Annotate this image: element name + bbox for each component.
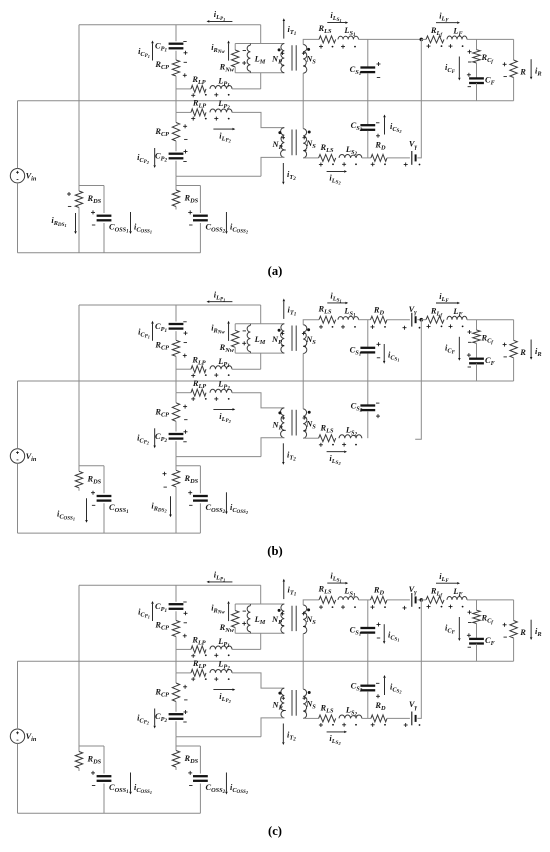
wire CF to mid rail [476, 644, 478, 662]
capacitor CP1 [169, 323, 184, 325]
svg-text:iT1: iT1 [288, 25, 297, 37]
svg-text:iCP2: iCP2 [137, 433, 150, 445]
svg-text:iT2: iT2 [287, 170, 296, 182]
polarity - R [504, 636, 507, 638]
current arrow iLP1 [209, 301, 232, 303]
wire NS2 bottom to branch [303, 717, 318, 719]
polarity - COSS2 [189, 785, 192, 787]
polarity dot NS T2 [308, 131, 311, 134]
polarity - COSS2 [189, 224, 192, 226]
transformer T2 core [291, 690, 293, 716]
wire leg1 vertical [78, 585, 80, 751]
dangling stub from output node [415, 320, 421, 440]
polarity marks RD Vgamma bottom [371, 163, 375, 165]
wire RD to Vgamma top [387, 599, 410, 601]
svg-text:iCP2: iCP2 [137, 153, 150, 165]
wire top rail down to box [260, 25, 262, 44]
svg-text:RCP: RCP [154, 127, 169, 138]
current arrow iCS2 [384, 117, 386, 134]
resistor RCP1 [172, 621, 179, 637]
wire NS1 bottom to mid rail [302, 73, 304, 101]
polarity + CS1 [377, 343, 381, 345]
polarity + RCf [468, 331, 472, 333]
svg-text:iCP1: iCP1 [138, 47, 150, 59]
polarity marks LP2 branch [191, 678, 195, 680]
svg-text:iRNw: iRNw [211, 323, 225, 335]
svg-text:iLP1: iLP1 [214, 10, 225, 22]
current arrow iLP2 [213, 689, 232, 691]
resistor RCP2 [172, 683, 179, 702]
polarity - COSS1 [92, 785, 95, 787]
polarity + CF [467, 354, 471, 356]
svg-text:iLP2: iLP2 [219, 412, 231, 424]
wire LP1 to box [232, 648, 261, 650]
svg-text:iCF: iCF [445, 63, 456, 75]
inductor LP1 [210, 646, 232, 649]
wire node1 to RLP1 [176, 648, 191, 650]
polarity + COSS1 [91, 492, 95, 494]
svg-text:Vγ: Vγ [409, 585, 418, 596]
polarity + RNw [242, 342, 246, 344]
resistor RLf [426, 596, 444, 603]
wire leg2 top [175, 25, 177, 42]
polarity + NP T1 [281, 333, 284, 335]
current arrow iCOSS1 [86, 498, 88, 520]
inductor LS2 [339, 715, 362, 718]
polarity + RCf [468, 51, 472, 53]
wire mid rail [18, 100, 514, 102]
svg-text:NP: NP [272, 701, 283, 712]
polarity marks LP2 branch [191, 118, 195, 120]
capacitor COSS1 [97, 495, 112, 497]
svg-text:iT2: iT2 [287, 450, 296, 462]
wire load right vertical [513, 600, 515, 621]
transformer T1 secondary winding NS [303, 45, 307, 74]
wire top rail [79, 304, 261, 306]
polarity + NP T1 [281, 613, 284, 615]
svg-text:RDS: RDS [87, 474, 102, 485]
polarity marks RD Vgamma bottom [371, 724, 375, 726]
polarity - NS T1 [303, 626, 306, 628]
wire NS1 top to branch [303, 600, 319, 605]
polarity - CF [468, 646, 471, 648]
wire LF to load [467, 319, 514, 321]
wire box top [235, 603, 284, 605]
wire Vin bottom to bottom rail [17, 463, 19, 533]
svg-text:iLS2: iLS2 [329, 734, 341, 746]
svg-text:CP1: CP1 [155, 42, 167, 54]
resistor RCf [473, 610, 480, 623]
polarity marks bottom secondary branch [319, 724, 323, 726]
polarity + COSS2 [188, 772, 192, 774]
wire CS2 to bottom branch [367, 131, 369, 158]
svg-text:iT1: iT1 [288, 586, 297, 598]
battery Vgamma top [411, 593, 413, 607]
inductor LP1 [210, 86, 232, 89]
wire CS1 to mid rail [367, 353, 369, 381]
wire Vin bottom to bottom rail [17, 183, 19, 253]
svg-text:RCP: RCP [154, 60, 169, 71]
capacitor CP1 [169, 43, 184, 45]
wire load to mid rail [513, 638, 515, 661]
svg-text:(a): (a) [268, 264, 283, 278]
wire Vgamma up to output node [417, 600, 421, 719]
capacitor CP1 [169, 603, 184, 605]
polarity - R [504, 356, 507, 358]
wire RDS2 dangling stub [175, 767, 177, 770]
svg-text:CS1: CS1 [350, 626, 362, 638]
polarity + RDS1 [67, 193, 71, 195]
svg-text:CP2: CP2 [155, 432, 167, 444]
resistor RDS2 [172, 751, 179, 768]
polarity - NS T1 [303, 345, 306, 347]
transformer T2 core [291, 130, 293, 156]
resistor RLS1 [319, 596, 336, 603]
current arrow iR [530, 620, 532, 638]
current arrow iCF [458, 337, 460, 358]
capacitor CS2 wire from mid rail [367, 101, 369, 125]
polarity marks LP1 branch [191, 655, 195, 657]
current arrow iR [530, 340, 532, 358]
polarity marks bottom secondary branch [319, 164, 323, 166]
current arrow iLP1 [209, 20, 232, 22]
polarity + CP1 [184, 52, 188, 54]
polarity marks top secondary branch [319, 326, 323, 328]
polarity + COSS1 [91, 211, 95, 213]
resistor RD top [371, 596, 388, 603]
wire RCP2 to CP2 [175, 702, 177, 712]
resistor RLP1 [191, 646, 206, 653]
resistor RCP1 [172, 340, 179, 356]
transformer T2 primary winding NP [281, 128, 285, 158]
polarity - NS T2 [304, 150, 307, 152]
wire node2 to RLP2 [176, 672, 191, 674]
polarity dot NS T2 [308, 411, 311, 414]
svg-text:CP2: CP2 [155, 712, 167, 724]
current arrow iLS2 [327, 170, 345, 172]
transformer T1 primary winding NP [281, 44, 285, 73]
capacitor CF [469, 77, 484, 79]
wire RCP1 to node1 [175, 356, 177, 392]
wire RDS2 dangling stub [175, 207, 177, 210]
current arrow iLS1 [327, 22, 345, 24]
junction node dot output [420, 598, 424, 602]
wire LS2 to CS2 node [362, 717, 371, 719]
svg-text:RLP: RLP [191, 636, 205, 647]
wire Vgamma up to output node [417, 39, 421, 157]
inductor LF [447, 597, 467, 600]
polarity - CS1 [377, 77, 380, 79]
current arrow iLP2 [213, 408, 232, 410]
wire Vin top to mid rail [17, 101, 19, 169]
svg-text:RLf: RLf [430, 306, 443, 318]
wire CP1 to RCP1 [175, 611, 177, 620]
capacitor COSS1 [97, 775, 112, 777]
inductor LS2 [339, 154, 362, 157]
capacitor CF [469, 638, 484, 640]
svg-text:iCS1: iCS1 [388, 631, 400, 643]
svg-text:RLS: RLS [318, 304, 332, 315]
resistor RLP1 [191, 366, 206, 373]
capacitor COSS2 [193, 215, 208, 217]
polarity + NS T2 [303, 417, 306, 419]
resistor RCP2 [172, 403, 179, 422]
polarity dot NP T2 [278, 131, 281, 134]
transformer T1 primary winding NP [281, 604, 285, 633]
wire RD to Vgamma bottom [387, 717, 410, 719]
svg-text:Vγ: Vγ [409, 140, 418, 151]
polarity - R [504, 76, 507, 78]
wire leg1 vertical [78, 305, 80, 471]
current arrow iCP2 [154, 428, 156, 445]
svg-text:iCP1: iCP1 [138, 327, 150, 339]
svg-text:iCS2: iCS2 [390, 683, 402, 695]
current arrow iT1 [283, 21, 285, 39]
wire bottom rail [18, 812, 201, 814]
current arrow iLS1 [327, 302, 345, 304]
resistor R load [510, 60, 517, 78]
capacitor CS2 [360, 124, 375, 126]
battery Vgamma top [411, 313, 413, 327]
polarity - RDS2 [164, 486, 167, 488]
svg-text:RD: RD [373, 586, 385, 597]
resistor RLP2 [191, 109, 206, 116]
resistor RDS2 [172, 190, 179, 207]
polarity - RDS1 [68, 205, 71, 207]
svg-text:Vin: Vin [26, 172, 37, 183]
transformer T1 core [291, 326, 293, 351]
polarity dot NS T1 [307, 328, 310, 331]
transformer T2 primary winding NP [281, 408, 285, 438]
wire RDS1 dangling stub [78, 488, 80, 491]
current arrow iCF [458, 57, 460, 78]
wire LS1 to CS1 node [359, 319, 371, 321]
polarity + CS2 [376, 695, 380, 697]
svg-text:iLS2: iLS2 [329, 454, 341, 466]
wire NS1 bottom to mid rail [302, 634, 304, 662]
current arrow iRDS2 [170, 496, 172, 514]
wire leg2 RDS2 top [175, 176, 177, 190]
capacitor CS2 wire from mid rail [367, 381, 369, 405]
current arrow iCP1 [152, 324, 154, 341]
wire Coss2 to bottom rail [199, 223, 201, 253]
wire Coss1 branch [103, 466, 105, 494]
svg-text:LP1: LP1 [217, 357, 230, 369]
polarity marks RD Vgamma top [371, 606, 375, 608]
polarity + CS2 [376, 135, 380, 137]
wire Coss1 to bottom rail [103, 784, 105, 814]
current arrow iRDS1 [75, 213, 77, 231]
capacitor CS1 [360, 66, 375, 68]
polarity + CF [467, 634, 471, 636]
polarity marks bottom secondary branch [319, 444, 323, 446]
inductor LF [447, 36, 467, 39]
polarity dot NP T1 [278, 609, 281, 612]
transformer T1 core [291, 45, 293, 70]
wire Vgamma to node [417, 599, 421, 601]
polarity marks filter [427, 45, 431, 47]
current arrow iCP2 [154, 709, 156, 726]
wire node to RLf [421, 38, 426, 40]
svg-text:RLf: RLf [430, 587, 443, 599]
svg-text:RLP: RLP [191, 75, 205, 86]
resistor RLf [426, 36, 444, 43]
resistor RLS1 [319, 316, 336, 323]
resistor RDS2 [172, 470, 179, 487]
polarity dot NS T2 [308, 691, 311, 694]
svg-text:LP1: LP1 [217, 77, 230, 89]
wire RCP2 to CP2 [175, 141, 177, 151]
svg-text:iRDS1: iRDS1 [51, 216, 66, 228]
current arrow iR [530, 59, 532, 76]
wire leg2 RDS2 top [175, 737, 177, 751]
wire node1 to RLP1 [176, 368, 191, 370]
polarity - CS2 [376, 682, 379, 684]
svg-text:iLP2: iLP2 [219, 692, 231, 704]
polarity - RCP2 [184, 138, 187, 140]
wire RCP1 to node1 [175, 637, 177, 673]
current arrow iLF [436, 582, 457, 584]
svg-text:NS: NS [305, 55, 316, 66]
wire top rail [79, 24, 261, 26]
polarity + RNw [242, 62, 246, 64]
polarity - CP1 [183, 321, 186, 323]
wire CS1 to mid rail [367, 634, 369, 662]
polarity - NP T2 [283, 710, 286, 712]
wire box top [235, 43, 284, 45]
wire mid rail [18, 660, 514, 662]
svg-text:iT1: iT1 [288, 305, 297, 317]
svg-text:(b): (b) [267, 544, 282, 558]
polarity - NP T1 [281, 344, 284, 346]
resistor RLP2 [191, 669, 206, 676]
polarity - COSS1 [92, 504, 95, 506]
wire box bottom [235, 632, 284, 634]
wire leg2 top [175, 305, 177, 322]
svg-text:RDS: RDS [184, 194, 199, 205]
polarity + COSS1 [91, 772, 95, 774]
wire box down to LP1 branch [260, 73, 262, 89]
current arrow iCOSS2 [225, 212, 227, 231]
resistor RNw [234, 324, 236, 331]
svg-text:CS1: CS1 [350, 345, 362, 357]
polarity + CP2 [184, 151, 188, 153]
resistor RDS1 [75, 471, 82, 488]
wire node2 to RLP2 [176, 111, 191, 113]
polarity + CS2 [376, 415, 380, 417]
polarity - CP2 [183, 161, 186, 163]
svg-text:(c): (c) [268, 824, 282, 838]
inductor LP1 [210, 366, 232, 369]
wire box down to LP1 branch [260, 633, 262, 649]
svg-text:iCF: iCF [445, 343, 456, 355]
polarity - CS2 [376, 402, 379, 404]
inductor LP2 [210, 389, 232, 392]
polarity marks filter [427, 325, 431, 327]
svg-text:iR: iR [535, 347, 542, 358]
wire LS1 to CS1 node [359, 599, 371, 601]
wire mid rail [18, 380, 514, 382]
capacitor COSS1 [97, 215, 112, 217]
current arrow iCOSS2 [225, 773, 227, 792]
wire top rail down to box [260, 585, 262, 604]
junction node dot output [420, 38, 424, 42]
svg-text:COSS1: COSS1 [109, 503, 129, 515]
polarity + NS T1 [302, 333, 305, 335]
wire Vgamma to node [417, 319, 421, 321]
wire RCf to CF [476, 624, 478, 639]
polarity - RCP2 [184, 699, 187, 701]
polarity - CP2 [183, 441, 186, 443]
wire node1 to RLP1 [176, 88, 191, 90]
inductor LS1 [338, 316, 359, 319]
transformer T2 primary winding NP [281, 688, 285, 718]
current arrow iCS1 [383, 624, 385, 641]
transformer T2 core [291, 410, 293, 436]
svg-text:NP: NP [271, 615, 282, 626]
svg-text:NS: NS [305, 615, 316, 626]
resistor RLS2 [319, 715, 336, 722]
polarity marks LP1 branch [191, 375, 195, 377]
svg-text:RLf: RLf [430, 26, 443, 38]
svg-text:RLP: RLP [192, 379, 206, 390]
voltage source Vin [10, 169, 24, 183]
wire node2 to RLP2 [176, 392, 191, 394]
polarity - CS1 [377, 357, 380, 359]
polarity - RCP1 [184, 342, 187, 344]
current arrow iCF [458, 617, 460, 638]
current arrow iCP1 [152, 43, 154, 60]
capacitor CS1 branch wire top [367, 320, 369, 347]
svg-text:LM: LM [254, 335, 266, 346]
polarity dot NP T1 [278, 329, 281, 332]
polarity + R [503, 624, 507, 626]
polarity - CP1 [183, 601, 186, 603]
wire Coss2 branch top [176, 185, 200, 187]
wire leg1 node to Coss1 [79, 465, 104, 467]
current arrow iT1 [283, 582, 285, 600]
polarity + RCP1 [183, 355, 187, 357]
resistor RLP2 [191, 389, 206, 396]
polarity - NP T1 [281, 625, 284, 627]
polarity - NS T1 [303, 65, 306, 67]
polarity + NP T2 [282, 417, 285, 419]
polarity - RNw [243, 50, 246, 52]
wire CP1 to RCP1 [175, 331, 177, 340]
resistor RCf [473, 330, 480, 343]
svg-text:Vγ: Vγ [409, 305, 418, 316]
svg-text:iLF: iLF [439, 292, 449, 304]
resistor RDS1 [75, 752, 82, 769]
polarity + NS T1 [302, 613, 305, 615]
current arrow iT2 [282, 724, 284, 743]
svg-text:RD: RD [374, 701, 386, 712]
wire CP2 to node3 [175, 721, 177, 737]
wire Vin top to mid rail [17, 661, 19, 729]
svg-text:NP: NP [272, 140, 283, 151]
svg-text:RLS: RLS [320, 423, 334, 434]
transformer T2 secondary winding NS [303, 689, 307, 718]
polarity + RCP1 [183, 635, 187, 637]
resistor RNw [234, 604, 236, 611]
wire CF to mid rail [476, 363, 478, 381]
svg-text:iLP1: iLP1 [214, 290, 225, 302]
svg-text:iLS1: iLS1 [330, 572, 341, 584]
resistor RCP2 [172, 123, 179, 142]
polarity - CP1 [183, 41, 186, 43]
svg-text:iR: iR [535, 627, 542, 638]
wire node3 to T2 loop [176, 175, 261, 177]
